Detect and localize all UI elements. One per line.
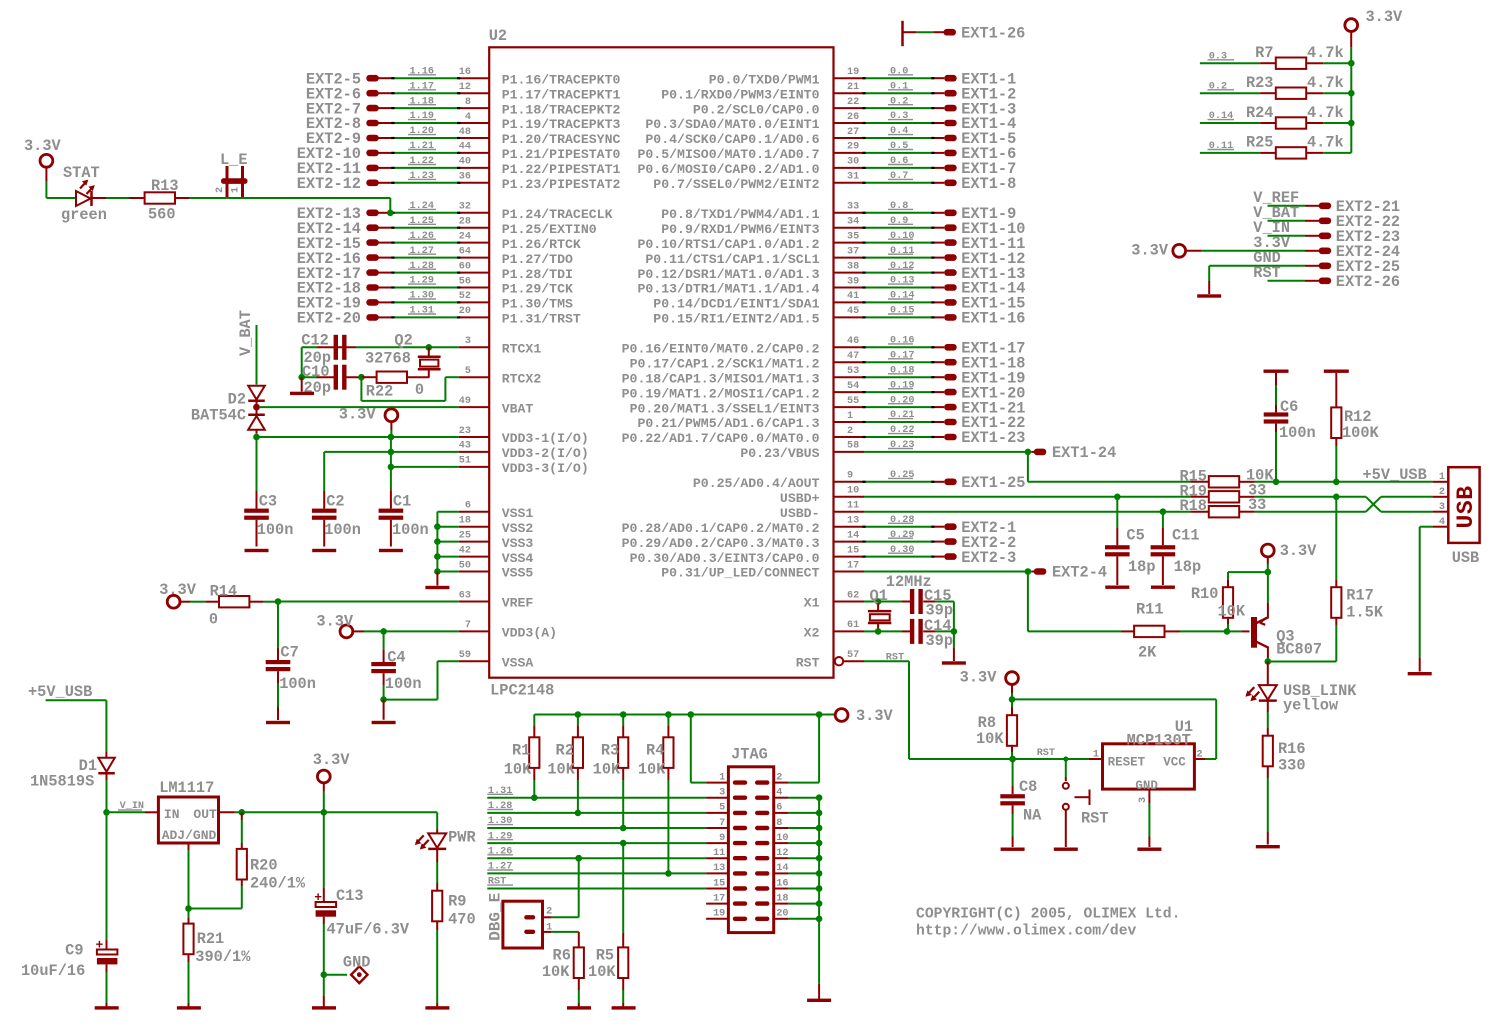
pin 6 VSS1 [459, 501, 534, 521]
svg-text:27: 27 [847, 127, 859, 138]
svg-text:1.27: 1.27 [488, 862, 512, 873]
svg-text:R21: R21 [197, 930, 225, 948]
svg-text:VSS4: VSS4 [502, 551, 534, 566]
svg-text:21: 21 [847, 82, 859, 93]
wire +5V_USB row to USB pin 1 [1275, 466, 1433, 484]
svg-text:RESET: RESET [1108, 756, 1146, 770]
svg-text:P0.19/MAT1.2/MOSI1/CAP1.2: P0.19/MAT1.2/MOSI1/CAP1.2 [622, 386, 820, 401]
svg-text:EXT1-26: EXT1-26 [961, 24, 1025, 42]
svg-text:20: 20 [459, 306, 471, 317]
svg-text:1.31: 1.31 [410, 306, 434, 317]
svg-text:P0.6/MOSI0/CAP0.2/AD1.0: P0.6/MOSI0/CAP0.2/AD1.0 [637, 162, 819, 177]
capacitor C3 100n [244, 437, 293, 552]
pin 57 RST (active low) [796, 650, 909, 670]
svg-text:P0.16/EINT0/MAT0.2/CAP0.2: P0.16/EINT0/MAT0.2/CAP0.2 [622, 342, 820, 357]
wire VDD vertical link [390, 437, 392, 490]
svg-text:19: 19 [713, 909, 725, 920]
svg-text:P1.21/PIPESTAT0: P1.21/PIPESTAT0 [502, 147, 621, 162]
svg-text:0.15: 0.15 [890, 306, 914, 317]
resistor R22 0 [358, 372, 429, 401]
svg-text:6: 6 [465, 501, 471, 512]
svg-text:P1.31/TRST: P1.31/TRST [502, 312, 581, 327]
svg-text:2: 2 [1197, 750, 1203, 761]
svg-text:EXT1-8: EXT1-8 [961, 175, 1016, 193]
wire net 1.26 to JTAG pin 11 [487, 846, 706, 861]
svg-text:0.3: 0.3 [890, 111, 908, 122]
svg-text:NA: NA [1023, 806, 1042, 824]
svg-text:R13: R13 [151, 177, 179, 195]
op-amp LM1117 voltage regulator [145, 779, 235, 850]
pin 43 VDD3-2(I/O) [459, 441, 589, 461]
svg-text:24: 24 [459, 231, 471, 242]
svg-text:P1.29/TCK: P1.29/TCK [502, 282, 573, 297]
svg-text:5: 5 [465, 366, 471, 377]
svg-text:52: 52 [459, 291, 471, 302]
svg-text:39: 39 [847, 276, 859, 287]
svg-text:12: 12 [776, 848, 788, 859]
connector pin EXT2-22 net V_BAT [1253, 204, 1400, 231]
pin 50 VSS5 [459, 560, 534, 580]
svg-text:0.17: 0.17 [890, 350, 914, 361]
svg-text:44: 44 [459, 142, 471, 153]
svg-text:0.29: 0.29 [890, 530, 914, 541]
op-amp U2 LPC2148 IC body [489, 27, 834, 699]
svg-text:1.26: 1.26 [488, 846, 512, 857]
svg-text:34: 34 [847, 217, 859, 228]
svg-text:X2: X2 [804, 626, 820, 641]
svg-text:MCP130T: MCP130T [1127, 732, 1191, 750]
svg-text:2: 2 [1439, 487, 1445, 498]
svg-text:C3: C3 [259, 492, 277, 510]
capacitor C2 100n [312, 452, 361, 552]
svg-text:2: 2 [776, 772, 782, 783]
svg-text:0.21: 0.21 [890, 410, 914, 421]
pin 36 P1.23/PIPESTAT2 / connector pin EXT2-12 [297, 171, 621, 193]
pin 62 X1 [804, 590, 878, 610]
svg-text:VSS5: VSS5 [502, 566, 534, 581]
resistor R12 100K [1324, 370, 1380, 486]
svg-text:30: 30 [847, 157, 859, 168]
svg-text:45: 45 [847, 306, 859, 317]
svg-text:P0.22/AD1.7/CAP0.0/MAT0.0: P0.22/AD1.7/CAP0.0/MAT0.0 [622, 431, 820, 446]
svg-text:R17: R17 [1346, 587, 1374, 605]
svg-text:P0.23/VBUS: P0.23/VBUS [740, 446, 819, 461]
svg-text:0.0: 0.0 [890, 66, 908, 77]
svg-text:VDD3-2(I/O): VDD3-2(I/O) [502, 446, 589, 461]
svg-text:37: 37 [847, 246, 859, 257]
resistor R11 2K [1121, 601, 1227, 662]
pin 47 P0.17/CAP1.2/SCK1/MAT1.2 / connector pin EXT1-18 [630, 350, 1026, 372]
svg-text:RTCX1: RTCX1 [502, 342, 542, 357]
node EXT2-4 junction [1025, 564, 1107, 582]
pin 56 P1.29/TCK / connector pin EXT2-18 [297, 276, 573, 298]
svg-text:P0.8/TXD1/PWM4/AD1.1: P0.8/TXD1/PWM4/AD1.1 [661, 207, 819, 222]
svg-text:10K: 10K [638, 761, 666, 779]
svg-text:0.20: 0.20 [890, 395, 914, 406]
svg-text:1.29: 1.29 [488, 831, 512, 842]
svg-text:100n: 100n [257, 521, 294, 539]
svg-text:11: 11 [847, 501, 859, 512]
svg-text:31: 31 [847, 172, 859, 183]
pin 41 P0.14/DCD1/EINT1/SDA1 / connector pin EXT1-15 [653, 291, 1025, 313]
pin 29 P0.5/MISO0/MAT0.1/AD0.7 / connector pin EXT1-6 [637, 141, 1016, 163]
wire DBG pin2 to net 1.26 [551, 855, 582, 917]
wire 3.3V to U1 VCC [1012, 699, 1216, 759]
resistor R24 4.7k net 0.14 [1200, 104, 1351, 129]
pin 11 USBD- [780, 501, 1191, 521]
pin 34 P0.9/RXD1/PWM6/EINT3 / connector pin EXT1-10 [661, 216, 1025, 238]
svg-text:60: 60 [459, 261, 471, 272]
svg-text:42: 42 [459, 545, 471, 556]
svg-text:36: 36 [459, 172, 471, 183]
svg-text:47: 47 [847, 351, 859, 362]
pin 7 VDD3(A) [459, 620, 557, 640]
svg-text:240/1%: 240/1% [250, 875, 306, 893]
pin 45 P0.15/RI1/EINT2/AD1.5 / connector pin EXT1-16 [653, 306, 1025, 328]
svg-text:0.6: 0.6 [890, 156, 908, 167]
svg-text:R11: R11 [1136, 601, 1164, 619]
svg-text:0.2: 0.2 [890, 96, 908, 107]
resistor R23 4.7k net 0.2 [1200, 74, 1351, 99]
svg-text:P0.25/AD0.4/AOUT: P0.25/AD0.4/AOUT [693, 476, 820, 491]
text copyright [916, 907, 1180, 940]
svg-text:6: 6 [776, 803, 782, 814]
svg-text:10K: 10K [976, 730, 1004, 748]
svg-text:P0.14/DCD1/EINT1/SDA1: P0.14/DCD1/EINT1/SDA1 [653, 297, 819, 312]
svg-text:+5V_USB: +5V_USB [1363, 466, 1427, 484]
svg-text:5: 5 [719, 803, 725, 814]
svg-text:0.13: 0.13 [890, 276, 914, 287]
svg-text:13: 13 [713, 863, 725, 874]
pin 63 VREF [459, 590, 534, 610]
svg-text:0.8: 0.8 [890, 201, 908, 212]
pin 40 P1.22/PIPESTAT1 / connector pin EXT2-11 [297, 156, 621, 178]
svg-text:PWR: PWR [448, 828, 476, 846]
svg-text:RST: RST [886, 652, 904, 663]
svg-text:1.22: 1.22 [410, 156, 434, 167]
svg-text:P1.22/PIPESTAT1: P1.22/PIPESTAT1 [502, 162, 621, 177]
pin 8 P1.18/TRACEPKT2 / connector pin EXT2-7 [306, 96, 621, 118]
switch RST pushbutton [1054, 756, 1109, 851]
svg-text:3.3V: 3.3V [960, 668, 998, 686]
svg-text:2: 2 [847, 426, 853, 437]
crystal Q2 32768 [365, 332, 441, 378]
connector pin EXT2-21 net V_REF [1253, 189, 1400, 216]
svg-text:100n: 100n [1279, 424, 1316, 442]
svg-text:1.16: 1.16 [410, 66, 434, 77]
svg-text:C5: C5 [1126, 527, 1144, 545]
svg-text:2: 2 [215, 187, 226, 193]
resistor R13 560 [106, 177, 227, 223]
svg-text:14: 14 [847, 530, 859, 541]
svg-text:VSS2: VSS2 [502, 521, 534, 536]
pin 1 P0.21/PWM5/AD1.6/CAP1.3 / connector pin EXT1-22 [637, 410, 1025, 432]
pin 39 P0.13/DTR1/MAT1.1/AD1.4 / connector pin EXT1-14 [637, 276, 1025, 298]
pin 9 P0.25/AD0.4/AOUT / connector pin EXT1-25 [693, 470, 1026, 492]
pin 4 P1.19/TRACEPKT3 / connector pin EXT2-8 [306, 111, 621, 133]
svg-text:0.30: 0.30 [890, 545, 914, 556]
svg-text:P0.7/SSEL0/PWM2/EINT2: P0.7/SSEL0/PWM2/EINT2 [653, 177, 819, 192]
svg-text:P1.18/TRACEPKT2: P1.18/TRACEPKT2 [502, 102, 621, 117]
svg-text:16: 16 [459, 67, 471, 78]
svg-text:USB: USB [1453, 485, 1479, 528]
pin 58 P0.23/VBUS net 0.23 [740, 440, 1028, 461]
svg-text:0.23: 0.23 [890, 440, 914, 451]
svg-text:3.3V: 3.3V [313, 751, 351, 769]
svg-text:P1.27/TDO: P1.27/TDO [502, 252, 573, 267]
svg-text:4: 4 [776, 788, 782, 799]
svg-text:15: 15 [847, 545, 859, 556]
svg-text:yellow: yellow [1283, 696, 1339, 714]
svg-text:1.23: 1.23 [410, 171, 434, 182]
svg-text:P1.30/TMS: P1.30/TMS [502, 297, 573, 312]
svg-text:0.4: 0.4 [890, 126, 908, 137]
svg-text:R10: R10 [1191, 585, 1219, 603]
svg-text:19: 19 [847, 67, 859, 78]
diode D1 1N5819S [30, 700, 115, 812]
svg-text:1: 1 [1439, 472, 1445, 483]
svg-text:VREF: VREF [502, 596, 534, 611]
svg-text:C6: C6 [1280, 398, 1298, 416]
svg-text:RST: RST [1253, 264, 1281, 282]
transistor Q3 BC807 PNP [1227, 572, 1322, 661]
ground GND flag (C13) [312, 953, 370, 1009]
resistor R17 1.5K [1331, 494, 1384, 626]
svg-text:LM1117: LM1117 [159, 779, 214, 797]
svg-text:470: 470 [448, 911, 476, 929]
svg-text:R25: R25 [1246, 134, 1274, 152]
svg-text:RTCX2: RTCX2 [502, 371, 542, 386]
pin 20 P1.31/TRST / connector pin EXT2-20 [297, 306, 581, 328]
capacitor C9 10uF/16 [21, 812, 119, 1009]
svg-text:P0.29/AD0.2/CAP0.3/MAT0.3: P0.29/AD0.2/CAP0.3/MAT0.3 [622, 536, 820, 551]
svg-text:51: 51 [459, 456, 471, 467]
supply 3.3V (VDD3A) [316, 612, 383, 637]
svg-text:C13: C13 [336, 887, 364, 905]
svg-text:IN: IN [164, 807, 180, 822]
svg-text:12: 12 [459, 82, 471, 93]
wire L_E to EXT2-13 node [387, 198, 394, 216]
svg-text:P0.2/SCL0/CAP0.0: P0.2/SCL0/CAP0.0 [693, 102, 820, 117]
wire C12/C10 ground leg [298, 347, 305, 380]
svg-text:18p: 18p [1128, 558, 1156, 576]
resistor R6 10K [542, 946, 591, 1009]
wire RST net from pin 57 [909, 661, 1089, 759]
wire net 1.28 to JTAG pin 5 [487, 801, 706, 816]
svg-text:USBD-: USBD- [780, 506, 820, 521]
connector pin EXT2-26 net RST [1253, 264, 1400, 291]
pin 55 P0.20/MAT1.3/SSEL1/EINT3 / connector pin EXT1-21 [630, 395, 1026, 417]
wire 3.3V JTAG rail [534, 711, 834, 718]
svg-text:100n: 100n [279, 675, 316, 693]
pin 28 P1.25/EXTIN0 / connector pin EXT2-14 [297, 216, 597, 238]
supply 3.3V (STAT LED) [24, 137, 62, 198]
svg-text:10K: 10K [542, 963, 570, 981]
svg-text:47uF/6.3V: 47uF/6.3V [327, 921, 410, 939]
svg-text:16: 16 [776, 878, 788, 889]
svg-text:R9: R9 [448, 893, 466, 911]
svg-text:P0.20/MAT1.3/SSEL1/EINT3: P0.20/MAT1.3/SSEL1/EINT3 [630, 401, 820, 416]
capacitor C10 20p [302, 363, 362, 397]
connector pin EXT2-25 net GND [1209, 249, 1400, 276]
supply 3.3V (EXT2-24) [1131, 242, 1201, 260]
svg-text:L_E: L_E [220, 151, 248, 169]
svg-text:7: 7 [465, 620, 471, 631]
wire RTCX2 detour to pin 5 [361, 377, 458, 401]
svg-text:58: 58 [847, 441, 859, 452]
svg-text:4: 4 [1439, 517, 1445, 528]
wire VSS ground bus [434, 512, 459, 575]
svg-text:1.28: 1.28 [410, 261, 434, 272]
svg-text:1.17: 1.17 [410, 81, 434, 92]
wire VBUS down to +5V row [1028, 452, 1191, 482]
svg-text:10K: 10K [593, 761, 621, 779]
svg-text:3: 3 [719, 788, 725, 799]
svg-text:1: 1 [847, 411, 853, 422]
pin 21 P0.1/RXD0/PWM3/EINT0 / connector pin EXT1-2 [661, 81, 1016, 103]
jumper L_E [215, 151, 390, 198]
wire JTAG right ground bus [788, 715, 831, 1003]
pin 48 P1.20/TRACESYNC / connector pin EXT2-9 [306, 126, 621, 148]
svg-text:P1.23/PIPESTAT2: P1.23/PIPESTAT2 [502, 177, 621, 192]
svg-text:USBD+: USBD+ [780, 491, 820, 506]
wire net 1.30 to JTAG pin 7 [487, 816, 706, 831]
svg-text:10K: 10K [1218, 602, 1246, 620]
svg-text:VDD3-3(I/O): VDD3-3(I/O) [502, 461, 589, 476]
svg-text:R5: R5 [596, 946, 614, 964]
svg-text:0.7: 0.7 [890, 171, 908, 182]
svg-text:1.20: 1.20 [410, 126, 434, 137]
pin 60 P1.28/TDI / connector pin EXT2-17 [297, 261, 573, 283]
svg-text:15: 15 [713, 878, 725, 889]
svg-text:Q2: Q2 [394, 332, 412, 350]
svg-text:0.22: 0.22 [890, 425, 914, 436]
svg-text:25: 25 [459, 530, 471, 541]
svg-text:EXT1-23: EXT1-23 [961, 429, 1025, 447]
svg-text:EXT2-12: EXT2-12 [297, 175, 361, 193]
svg-text:1: 1 [719, 772, 725, 783]
svg-text:1: 1 [231, 187, 242, 193]
svg-text:R1: R1 [512, 742, 530, 760]
svg-text:10K: 10K [588, 963, 616, 981]
svg-text:2K: 2K [1138, 644, 1157, 662]
svg-text:1.28: 1.28 [488, 801, 512, 812]
node V_IN [103, 801, 145, 816]
svg-text:10: 10 [776, 833, 788, 844]
svg-text:28: 28 [459, 217, 471, 228]
svg-text:RST: RST [796, 655, 820, 670]
svg-text:C2: C2 [326, 492, 344, 510]
svg-text:10K: 10K [504, 761, 532, 779]
pin 13 P0.28/AD0.1/CAP0.2/MAT0.2 / connector pin EXT2-1 [622, 515, 1017, 537]
svg-text:P1.24/TRACECLK: P1.24/TRACECLK [502, 207, 613, 222]
svg-text:100n: 100n [392, 521, 429, 539]
svg-text:1.25: 1.25 [410, 216, 434, 227]
svg-text:7: 7 [719, 818, 725, 829]
svg-text:P0.4/SCK0/CAP0.1/AD0.6: P0.4/SCK0/CAP0.1/AD0.6 [645, 132, 819, 147]
svg-text:+5V_USB: +5V_USB [28, 683, 92, 701]
svg-text:0.16: 0.16 [890, 336, 914, 347]
pin 23 VDD3-1(I/O) [459, 426, 589, 446]
LED USB_LINK yellow [1245, 662, 1357, 715]
supply 3.3V (U1) [960, 668, 1019, 702]
svg-text:8: 8 [465, 97, 471, 108]
svg-text:3: 3 [1439, 502, 1445, 513]
svg-text:P0.17/CAP1.2/SCK1/MAT1.2: P0.17/CAP1.2/SCK1/MAT1.2 [630, 356, 820, 371]
svg-text:EXT1-24: EXT1-24 [1052, 444, 1116, 462]
svg-text:C11: C11 [1172, 527, 1200, 545]
svg-text:VSSA: VSSA [502, 655, 534, 670]
resistor R3 10K [593, 715, 629, 829]
pin 31 P0.7/SSEL0/PWM2/EINT2 / connector pin EXT1-8 [653, 171, 1016, 193]
pin 15 P0.30/AD0.3/EINT3/CAP0.0 / connector pin EXT2-3 [630, 545, 1017, 567]
svg-text:P0.11/CTS1/CAP1.1/SCL1: P0.11/CTS1/CAP1.1/SCL1 [645, 252, 819, 267]
supply 3.3V (pullup rail) [1345, 8, 1403, 63]
wire JTAG pin1 to 3.3V [691, 715, 706, 783]
svg-text:P1.16/TRACEPKT0: P1.16/TRACEPKT0 [502, 72, 621, 87]
wire pullup rail vertical [1348, 60, 1355, 153]
svg-text:100n: 100n [385, 675, 422, 693]
resistor R10 10K [1191, 572, 1268, 635]
pin 64 P1.27/TDO / connector pin EXT2-16 [297, 246, 573, 268]
node Q3 collector [1265, 625, 1337, 665]
svg-text:17: 17 [713, 893, 725, 904]
pin 44 P1.21/PIPESTAT0 / connector pin EXT2-10 [297, 141, 621, 163]
svg-text:9: 9 [847, 471, 853, 482]
svg-text:38: 38 [847, 261, 859, 272]
pin 12 P1.17/TRACEPKT1 / connector pin EXT2-6 [306, 81, 621, 103]
wire V_BAT to D2 [256, 325, 258, 385]
svg-text:R3: R3 [601, 742, 619, 760]
pin 38 P0.12/DSR1/MAT1.0/AD1.3 / connector pin EXT1-13 [637, 261, 1025, 283]
svg-text:46: 46 [847, 336, 859, 347]
capacitor C15 39p [878, 587, 954, 631]
resistor R25 4.7k net 0.11 [1200, 134, 1351, 159]
svg-text:59: 59 [459, 650, 471, 661]
svg-text:RST: RST [1081, 809, 1109, 827]
supply 3.3V (VREF) [159, 581, 197, 608]
svg-text:R24: R24 [1246, 104, 1274, 122]
capacitor C5 18p [1105, 494, 1156, 589]
svg-text:EXT2-4: EXT2-4 [1052, 564, 1107, 582]
svg-text:61: 61 [847, 620, 859, 631]
svg-text:11: 11 [713, 848, 725, 859]
pin 24 P1.26/RTCK / connector pin EXT2-15 [297, 231, 581, 253]
wire VREF row [275, 598, 459, 605]
svg-text:0.12: 0.12 [890, 261, 914, 272]
svg-text:10K: 10K [547, 761, 575, 779]
pin 35 P0.10/RTS1/CAP1.0/AD1.2 / connector pin EXT1-11 [637, 231, 1025, 253]
svg-text:C1: C1 [393, 492, 411, 510]
svg-text:DBG_E: DBG_E [486, 893, 504, 941]
svg-text:EXT1-25: EXT1-25 [961, 474, 1025, 492]
wire USB pin 4 to ground [1408, 527, 1433, 676]
svg-text:VDD3-1(I/O): VDD3-1(I/O) [502, 431, 589, 446]
svg-text:57: 57 [847, 650, 859, 661]
wire net 1.31 to JTAG pin 3 [487, 786, 706, 801]
wire VDD3-2 row [324, 449, 459, 456]
svg-text:VSS1: VSS1 [502, 506, 534, 521]
supply 3.3V (VBAT/VDD rail) [339, 405, 398, 440]
svg-text:33: 33 [1248, 496, 1266, 514]
svg-text:40: 40 [459, 157, 471, 168]
svg-text:43: 43 [459, 441, 471, 452]
pin 2 P0.22/AD1.7/CAP0.0/MAT0.0 / connector pin EXT1-23 [622, 425, 1026, 447]
svg-text:63: 63 [459, 590, 471, 601]
capacitor C12 20p [301, 331, 356, 367]
pin 5 RTCX2 [459, 366, 542, 386]
ground (C14/C15) [942, 631, 966, 664]
